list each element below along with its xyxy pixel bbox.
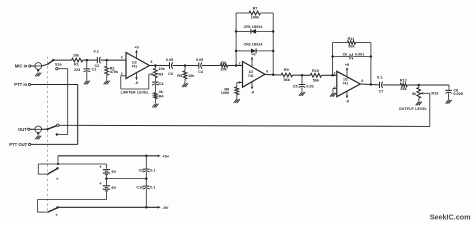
svg-text:C4: C4 — [159, 82, 165, 86]
wire — [228, 65, 243, 67]
wire — [58, 68, 68, 70]
svg-text:56k: 56k — [313, 79, 320, 83]
battery B2 9V — [103, 185, 110, 187]
svg-text:4k: 4k — [159, 90, 164, 94]
svg-text:LIMITER LEVEL: LIMITER LEVEL — [121, 90, 150, 94]
ground — [446, 100, 449, 104]
svg-text:S1a: S1a — [55, 63, 63, 67]
wire — [301, 75, 303, 84]
svg-text:741: 741 — [248, 74, 254, 78]
svg-text:C2: C2 — [94, 64, 99, 68]
power +9 stub IC1 — [136, 51, 138, 59]
wire — [30, 128, 35, 130]
wire — [105, 175, 107, 186]
svg-text:SeekIC.com: SeekIC.com — [430, 212, 471, 221]
switch S1b blade — [48, 126, 57, 130]
wire — [448, 85, 450, 90]
capacitor C8 — [445, 89, 452, 91]
wire — [105, 191, 107, 200]
svg-text:R12: R12 — [400, 79, 407, 83]
wire — [184, 79, 186, 83]
ground — [416, 102, 419, 106]
svg-text:C6: C6 — [342, 53, 347, 57]
wire — [145, 189, 147, 207]
resistor R1 — [72, 58, 83, 62]
wire — [145, 172, 147, 179]
node A — [86, 59, 89, 62]
svg-text:0.05: 0.05 — [196, 58, 203, 62]
resistor R10 — [310, 73, 321, 77]
svg-text:+9: +9 — [251, 52, 255, 56]
svg-text:0.02: 0.02 — [306, 84, 313, 88]
switch S1 gang dashed line — [46, 57, 48, 214]
svg-text:R1: R1 — [74, 62, 79, 66]
svg-text:6: 6 — [266, 70, 268, 74]
node B — [105, 59, 108, 62]
wire S1c pivot loop — [37, 164, 39, 174]
svg-text:0.1: 0.1 — [150, 169, 155, 173]
wire — [173, 65, 199, 67]
svg-text:0.1: 0.1 — [377, 76, 382, 80]
switch S1a lower contact — [56, 68, 58, 70]
svg-text:+: + — [99, 165, 102, 170]
wire feedback left IC3 — [332, 43, 334, 76]
ground — [299, 92, 302, 96]
svg-text:PTT in: PTT in — [14, 82, 27, 87]
svg-text:CR2 1N914: CR2 1N914 — [244, 42, 263, 46]
wire — [265, 74, 281, 77]
wire — [383, 84, 401, 86]
svg-text:C10: C10 — [136, 186, 143, 190]
node CR1 left — [235, 30, 238, 33]
wire -9V rail — [58, 206, 159, 208]
svg-text:MIC in: MIC in — [15, 64, 28, 69]
switch S1c contact stem — [57, 156, 59, 164]
wire feedback right — [272, 13, 274, 75]
svg-text:10k: 10k — [188, 74, 195, 78]
svg-text:-9V: -9V — [162, 205, 169, 210]
wire — [86, 60, 88, 69]
switch S1b contact — [57, 124, 59, 126]
capacitor C4a — [152, 81, 159, 83]
node out jack sleeve — [37, 132, 39, 134]
node C6 left — [331, 55, 334, 58]
diode CR1 — [251, 29, 256, 34]
node mic jack sleeve — [37, 69, 39, 71]
ground — [84, 81, 87, 85]
node G — [418, 84, 421, 87]
potentiometer R13 — [417, 88, 421, 99]
svg-text:10k: 10k — [158, 67, 165, 71]
node CR1 right — [272, 30, 275, 33]
node CR2 left — [235, 50, 238, 53]
label S1d dot — [56, 214, 58, 216]
arrow -9V — [157, 206, 160, 209]
wire — [184, 66, 186, 72]
op-amp IC3 — [337, 71, 361, 96]
wire PTT out — [31, 143, 78, 145]
svg-text:CR1 1N914: CR1 1N914 — [244, 25, 263, 29]
capacitor C4 — [198, 62, 200, 68]
potentiometer R3 — [154, 68, 158, 77]
node IC3 out — [370, 83, 373, 86]
label S1c dot — [56, 178, 58, 180]
wire C6 row — [333, 56, 350, 58]
arrow +9V — [157, 154, 160, 157]
svg-text:2: 2 — [334, 71, 336, 75]
capacitor C5 — [299, 84, 306, 86]
wire PTT vertical — [77, 85, 79, 145]
ground — [234, 99, 237, 103]
svg-text:9V: 9V — [111, 185, 116, 190]
svg-text:C4: C4 — [198, 70, 204, 74]
svg-text:R3: R3 — [158, 72, 163, 76]
resistor R5 — [183, 71, 187, 79]
wire — [202, 65, 220, 67]
node C10 bottom — [145, 206, 148, 209]
capacitor C9 — [143, 168, 150, 170]
svg-text:33k: 33k — [400, 87, 407, 91]
terminal MIC in — [29, 65, 31, 67]
svg-text:-9: -9 — [346, 100, 349, 104]
op-amp IC2 — [243, 62, 266, 88]
svg-text:470k: 470k — [110, 70, 119, 74]
svg-text:C7: C7 — [379, 90, 384, 94]
svg-text:C3: C3 — [168, 72, 173, 76]
diode CR2 — [251, 49, 256, 54]
resistor R12 — [400, 83, 407, 87]
svg-text:R4: R4 — [159, 95, 165, 99]
wire limiter feedback — [121, 75, 126, 77]
svg-text:OUT: OUT — [18, 127, 27, 132]
svg-text:+: + — [99, 181, 102, 186]
wire bypass — [67, 69, 69, 135]
wire — [418, 85, 420, 88]
resistor R11 — [347, 41, 355, 45]
svg-text:10k: 10k — [220, 68, 227, 72]
wire — [448, 93, 450, 99]
wire processed output line — [59, 125, 430, 126]
wire — [106, 60, 108, 66]
switch S1b lower contact — [56, 133, 58, 135]
wire — [150, 65, 170, 67]
wire S1d pivot loop — [36, 200, 38, 213]
svg-text:0.1: 0.1 — [150, 186, 155, 190]
node battery mid — [105, 177, 108, 180]
node IC2 out — [272, 74, 275, 77]
wire S1c to battery — [38, 163, 106, 165]
wire feedback left — [235, 13, 237, 66]
wire — [55, 59, 72, 61]
svg-text:C5: C5 — [293, 84, 298, 88]
resistor R6 — [220, 64, 227, 68]
svg-text:+9v: +9v — [162, 153, 170, 158]
resistor R4 — [154, 93, 158, 99]
wire — [31, 65, 35, 67]
terminal OUT — [28, 128, 30, 130]
wire — [154, 78, 156, 82]
wire — [236, 95, 238, 99]
op-amp IC1 — [126, 53, 150, 79]
node C9 top — [145, 155, 148, 158]
wire battery mid tap — [106, 178, 146, 180]
power +9 stub IC2 — [251, 57, 253, 67]
svg-text:OUTPUT LEVEL: OUTPUT LEVEL — [399, 107, 428, 111]
node E — [301, 74, 304, 77]
wiper wire R13 — [423, 92, 430, 94]
wire — [145, 179, 147, 186]
node cap mid — [145, 177, 148, 180]
node S1c contact — [57, 163, 59, 165]
ground — [35, 73, 38, 77]
switch S1c blade — [48, 169, 58, 175]
svg-text:0.1: 0.1 — [94, 50, 99, 54]
svg-text:6: 6 — [361, 79, 363, 83]
wire — [42, 128, 48, 130]
jack J2 out — [35, 126, 42, 133]
wire — [145, 156, 147, 169]
capacitor C10 — [143, 185, 150, 187]
svg-text:C9: C9 — [139, 169, 144, 173]
ground — [330, 93, 333, 97]
svg-text:0.05: 0.05 — [166, 58, 173, 62]
wire — [360, 83, 379, 86]
wire — [105, 164, 107, 169]
svg-text:+9: +9 — [134, 46, 138, 50]
node C — [184, 64, 187, 67]
svg-text:6: 6 — [151, 60, 153, 64]
svg-text:741: 741 — [342, 81, 348, 85]
ground — [182, 83, 185, 87]
wire — [407, 84, 449, 86]
wire S1d to battery — [37, 199, 106, 201]
svg-text:R7: R7 — [253, 6, 258, 10]
power +9 stub IC3 — [346, 68, 348, 77]
wire — [333, 87, 337, 89]
wire — [86, 72, 88, 81]
ground — [104, 81, 107, 85]
svg-text:9V: 9V — [111, 169, 116, 174]
power -9 stub IC3 — [346, 91, 348, 97]
resistor R9 — [281, 73, 292, 77]
terminal PTT OUT — [29, 143, 31, 145]
svg-text:2: 2 — [239, 62, 241, 66]
wire feedback right IC3 — [370, 43, 372, 85]
ground — [152, 104, 155, 108]
node F — [331, 74, 334, 77]
wire +9V rail — [58, 155, 159, 157]
wire — [100, 59, 126, 61]
wire — [106, 75, 108, 80]
wire CR2 row — [236, 50, 251, 52]
svg-text:-9: -9 — [251, 91, 254, 95]
capacitor C2 — [96, 57, 98, 63]
jack J1 mic — [35, 63, 42, 70]
wire feedback top — [236, 12, 249, 14]
wire — [83, 59, 98, 61]
wire feedback top IC3 — [333, 42, 348, 44]
wire — [58, 134, 68, 136]
svg-text:56k: 56k — [284, 78, 291, 82]
svg-text:+9: +9 — [345, 63, 349, 67]
capacitor C7 — [379, 82, 381, 88]
svg-text:100k: 100k — [251, 15, 260, 19]
wire output return — [429, 93, 431, 126]
wire — [42, 64, 48, 66]
wire — [154, 85, 156, 93]
capacitor C1 — [84, 68, 91, 70]
capacitor C6 — [349, 54, 351, 60]
svg-text:R13: R13 — [431, 92, 438, 96]
node D — [235, 64, 238, 67]
resistor R8 — [235, 87, 239, 95]
svg-text:PTT OUT: PTT OUT — [9, 142, 27, 147]
switch S1a blade — [47, 60, 53, 64]
svg-text:10k: 10k — [73, 54, 80, 58]
wire — [322, 74, 337, 76]
wire — [154, 66, 156, 69]
svg-text:223: 223 — [74, 68, 80, 72]
svg-text:-9: -9 — [135, 81, 138, 85]
ground — [35, 136, 38, 140]
svg-text:741: 741 — [131, 65, 137, 69]
svg-text:R9: R9 — [284, 68, 289, 72]
resistor R2 — [105, 66, 109, 75]
wire — [154, 99, 156, 104]
wire PTT — [31, 84, 78, 86]
wire — [237, 82, 243, 84]
svg-text:56k: 56k — [348, 45, 355, 49]
node C6 right — [370, 55, 373, 58]
node CR2 right — [272, 50, 275, 53]
svg-text:3: 3 — [121, 56, 123, 60]
wire — [418, 98, 420, 101]
resistor R7 — [249, 11, 260, 15]
svg-text:0.001: 0.001 — [355, 53, 364, 57]
svg-text:100k: 100k — [221, 91, 230, 95]
power -9 stub IC1 — [136, 73, 138, 80]
svg-text:R10: R10 — [312, 69, 319, 73]
wire — [293, 74, 311, 76]
switch S1d blade — [48, 208, 58, 212]
svg-text:0.005: 0.005 — [453, 92, 463, 96]
node IC1 out — [154, 64, 157, 67]
power -9 stub IC2 — [251, 82, 253, 89]
terminal PTT in — [28, 83, 30, 85]
capacitor C3 — [169, 62, 171, 68]
wire — [301, 87, 303, 92]
wire CR1 row — [236, 30, 251, 32]
svg-text:2: 2 — [121, 72, 123, 76]
svg-text:R5: R5 — [177, 74, 182, 78]
battery B1 9V — [103, 169, 110, 171]
